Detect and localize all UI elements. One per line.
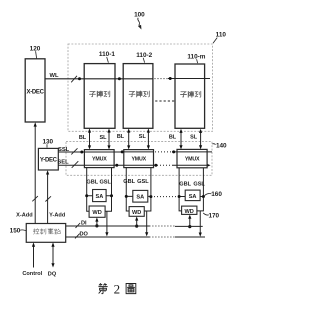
wire SSL crossing YMUX blocks bbox=[84, 151, 207, 153]
svg-text:GBL: GBL bbox=[86, 180, 98, 186]
wire X-Add (control to X-DEC, arrow up) bbox=[34, 122, 37, 223]
lead line of label 100 bbox=[138, 18, 142, 30]
column mux block YMUX col2 bbox=[124, 150, 154, 168]
wire GBL column 1 (YMUX to SA/WD) bbox=[87, 168, 89, 212]
svg-text:DI: DI bbox=[81, 221, 87, 227]
sense amplifier SA col3 bbox=[185, 190, 200, 201]
junction DI col2 bbox=[135, 225, 138, 228]
wire SSL (select line from Y-DEC across YMUXes) bbox=[58, 151, 212, 153]
ellipsis between sub-array 110-2 and 110-m bbox=[155, 100, 174, 102]
lead line of label 110-2 bbox=[143, 58, 144, 63]
svg-text:SA: SA bbox=[136, 195, 144, 201]
wire BL column 3 (bidirectional) bbox=[179, 129, 182, 150]
arrow onto DO col1 bbox=[105, 232, 108, 236]
svg-text:SEL: SEL bbox=[57, 159, 69, 165]
write driver WD col2 bbox=[129, 207, 144, 217]
ellipsis between SA col2 and col3 bbox=[154, 196, 177, 198]
sub-array block 110-m (子陣列) bbox=[175, 64, 205, 128]
svg-text:SA: SA bbox=[189, 194, 197, 200]
dashed box 140 (column multiplexer region) bbox=[66, 142, 212, 176]
svg-text:Y-Add: Y-Add bbox=[49, 213, 66, 219]
wire to DO column 3 bbox=[199, 211, 201, 233]
lead line of label 110-m bbox=[197, 59, 198, 63]
junction GSL/SA col2 bbox=[149, 195, 152, 198]
lead line of label 120 bbox=[36, 51, 37, 58]
caption 第 2 圖 (Figure 2) bbox=[99, 284, 108, 294]
junction GBL/SA col1 bbox=[85, 194, 88, 197]
svg-text:Y-DEC: Y-DEC bbox=[40, 158, 58, 164]
wire SEL (select line from Y-DEC across YMUXes) bbox=[58, 164, 207, 166]
junction DI col1 bbox=[95, 224, 98, 227]
arrow terminal of SEL at YMUX col3 bbox=[206, 164, 210, 168]
lead squiggle of label 150 bbox=[19, 229, 26, 232]
junction DI col3 bbox=[188, 225, 191, 228]
svg-text:YMUX: YMUX bbox=[185, 157, 200, 163]
bus slash on X-Add bbox=[32, 196, 38, 201]
wire DQ (bidirectional data) bbox=[51, 242, 54, 267]
sub-array block 110-1 (子陣列) bbox=[84, 64, 115, 129]
lead squiggle of label 160 bbox=[205, 193, 212, 195]
wire GSL column 1 (YMUX to SA/WD) bbox=[105, 168, 111, 212]
lead line of label 110 bbox=[213, 38, 217, 44]
junction WL to 110-2 bbox=[118, 77, 121, 80]
junction WL to 110-1 bbox=[78, 77, 81, 80]
svg-text:BL: BL bbox=[169, 134, 177, 140]
X decoder block 120 (X-DEC) bbox=[25, 59, 45, 122]
wire GBL column 3 bbox=[179, 168, 182, 211]
lead squiggle of label 140 bbox=[212, 143, 215, 146]
wire DI (data in bus) bbox=[66, 225, 203, 227]
sense amplifier SA col1 bbox=[93, 190, 107, 202]
wire DI to WD col2 (arrow up) bbox=[135, 216, 138, 226]
junction SEL at YMUX col1 bbox=[115, 164, 118, 167]
net labels BL/SL all columns bbox=[79, 134, 198, 141]
wire BL column 2 (bidirectional) bbox=[127, 128, 130, 149]
junction GSL/SA col1 bbox=[110, 194, 113, 197]
svg-text:160: 160 bbox=[211, 191, 222, 198]
svg-text:150: 150 bbox=[10, 228, 21, 235]
svg-text:GSL: GSL bbox=[137, 179, 149, 185]
lead line of label 110-1 bbox=[107, 57, 109, 63]
wire SL column 2 (bidirectional) bbox=[147, 128, 150, 149]
bus slash on WL bbox=[71, 76, 77, 83]
bus slash on DI bbox=[76, 223, 81, 228]
write driver WD col3 bbox=[182, 206, 197, 215]
junction GBL/SA col3 bbox=[178, 195, 181, 198]
arrow onto DO col2 bbox=[145, 232, 148, 236]
wire GSL column 2 bbox=[144, 168, 151, 211]
wire DI to WD col1 (arrow up) bbox=[95, 217, 98, 226]
lead line of label 130 bbox=[46, 144, 48, 147]
sense amplifier SA col2 bbox=[133, 190, 148, 202]
lead squiggle of label 170 bbox=[203, 213, 209, 215]
wire SL column 3 (bidirectional) bbox=[199, 129, 202, 150]
wire BL column 1 (bidirectional) bbox=[88, 128, 91, 149]
svg-text:WD: WD bbox=[185, 209, 194, 215]
svg-text:X-DEC: X-DEC bbox=[27, 89, 45, 95]
svg-text:2: 2 bbox=[114, 281, 121, 296]
wire to DO column 2 bbox=[146, 211, 148, 233]
wire Control input (arrow up into control block) bbox=[32, 242, 35, 267]
arrow onto DO col3 bbox=[199, 233, 202, 237]
svg-text:DO: DO bbox=[80, 231, 89, 237]
bus slash on SEL bbox=[72, 161, 79, 168]
wire GBL column 2 bbox=[126, 168, 129, 211]
write driver WD col1 bbox=[89, 206, 105, 217]
svg-text:SL: SL bbox=[139, 134, 147, 140]
svg-text:YMUX: YMUX bbox=[92, 157, 107, 163]
wire to DO column 1 bbox=[106, 211, 108, 233]
svg-text:SA: SA bbox=[96, 194, 104, 200]
svg-text:GBL: GBL bbox=[123, 179, 135, 185]
svg-text:SL: SL bbox=[190, 134, 198, 140]
svg-text:X-Add: X-Add bbox=[16, 213, 33, 219]
svg-text:Control: Control bbox=[22, 271, 42, 277]
junction SSL to YMUX col1 bbox=[80, 151, 83, 154]
wire DO (data out bus) bbox=[66, 236, 205, 238]
wire Y-Add (control to Y-DEC, arrow up) bbox=[46, 170, 49, 223]
wire WL (word line from X-DEC across sub-arrays) bbox=[45, 78, 210, 80]
wire GSL column 3 bbox=[197, 168, 204, 211]
svg-text:120: 120 bbox=[30, 45, 41, 52]
junction GBL/SA col2 bbox=[125, 195, 128, 198]
bus slash on DO bbox=[75, 234, 80, 239]
dashed box 110 (memory cell array region) bbox=[68, 44, 213, 131]
column mux block YMUX col1 bbox=[84, 150, 114, 168]
svg-text:SL: SL bbox=[99, 135, 107, 141]
svg-text:170: 170 bbox=[208, 213, 219, 220]
control circuit block 150 (控制電路) bbox=[26, 224, 65, 243]
bus slash on SSL bbox=[71, 148, 77, 154]
svg-text:YMUX: YMUX bbox=[131, 157, 146, 163]
svg-text:GSL: GSL bbox=[99, 180, 111, 186]
stubs GBL/GSL into SA col1 bbox=[87, 195, 112, 197]
svg-text:BL: BL bbox=[79, 135, 87, 141]
junction SEL at YMUX col2 bbox=[154, 164, 157, 167]
junction GSL/SA col3 bbox=[202, 195, 205, 198]
junction SSL to YMUX col2 bbox=[121, 150, 124, 153]
wire SEL crossing YMUX blocks bbox=[84, 164, 207, 166]
svg-text:DQ: DQ bbox=[48, 272, 57, 278]
svg-text:WD: WD bbox=[132, 210, 141, 216]
junction WL to 110-m bbox=[169, 77, 172, 80]
svg-text:SSL: SSL bbox=[58, 147, 70, 153]
svg-text:110-2: 110-2 bbox=[136, 52, 152, 59]
svg-text:BL: BL bbox=[117, 134, 125, 140]
svg-text:140: 140 bbox=[216, 142, 227, 149]
Y decoder block 130 (Y-DEC) bbox=[38, 148, 58, 170]
wire SL column 1 (bidirectional) bbox=[107, 128, 110, 149]
wire DI to WD col3 (arrow up) bbox=[188, 215, 191, 227]
stubs GBL/GSL into SA col2 bbox=[126, 195, 151, 197]
bus slash on Y-Add bbox=[45, 196, 51, 201]
svg-text:GSL: GSL bbox=[193, 181, 205, 187]
svg-text:WL: WL bbox=[49, 73, 58, 79]
svg-text:WD: WD bbox=[92, 210, 101, 216]
sub-array block 110-2 (子陣列) bbox=[123, 64, 153, 129]
svg-text:100: 100 bbox=[134, 11, 145, 18]
junction SSL to YMUX col3 bbox=[172, 150, 175, 153]
column mux block YMUX col3 bbox=[177, 149, 207, 167]
svg-text:130: 130 bbox=[42, 138, 53, 145]
stubs GBL/GSL into SA col3 bbox=[179, 196, 203, 198]
svg-text:GBL: GBL bbox=[179, 181, 191, 187]
